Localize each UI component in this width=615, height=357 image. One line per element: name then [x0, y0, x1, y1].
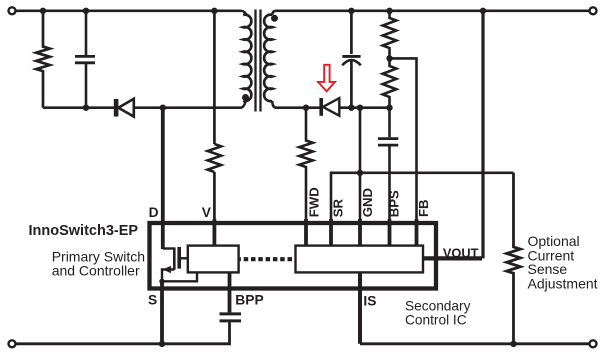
- svg-text:VOUT: VOUT: [443, 245, 479, 260]
- svg-text:FB: FB: [416, 199, 431, 217]
- svg-text:FWD: FWD: [307, 187, 322, 217]
- svg-text:BPP: BPP: [235, 292, 263, 307]
- svg-text:S: S: [148, 292, 157, 307]
- svg-text:IS: IS: [363, 294, 376, 309]
- svg-text:InnoSwitch3-EP: InnoSwitch3-EP: [29, 223, 139, 239]
- svg-text:Adjustment: Adjustment: [528, 276, 598, 292]
- svg-text:SR: SR: [331, 199, 346, 218]
- svg-text:BPS: BPS: [387, 190, 402, 217]
- svg-text:and Controller: and Controller: [52, 263, 140, 279]
- svg-text:V: V: [202, 205, 212, 220]
- svg-text:GND: GND: [360, 188, 375, 217]
- svg-text:D: D: [149, 205, 159, 220]
- svg-text:Control IC: Control IC: [405, 312, 467, 327]
